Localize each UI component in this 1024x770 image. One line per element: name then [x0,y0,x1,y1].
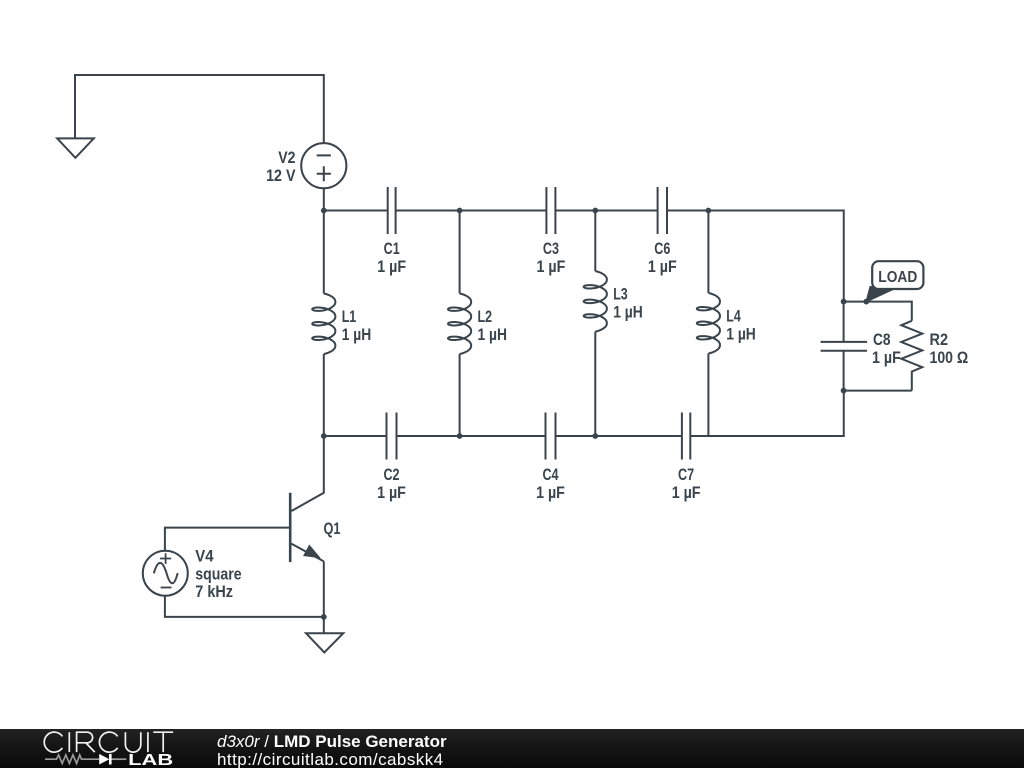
svg-text:C3: C3 [543,240,559,258]
wire top rail [324,211,844,302]
svg-text:1 µF: 1 µF [536,484,565,502]
inductor L2 [448,211,471,437]
inductor L4 [697,211,720,437]
wire load top [844,302,912,321]
ground GND2 [306,633,343,652]
node load left [841,299,847,305]
node load bottom [841,388,847,394]
transistor Q1 [290,493,324,562]
footer title [217,732,447,752]
capacitor C3 [546,187,555,234]
svg-text:C4: C4 [542,466,559,484]
svg-text:L3: L3 [613,286,628,304]
svg-text:1 µH: 1 µH [613,304,643,322]
node bottom B [457,433,463,439]
svg-text:C6: C6 [654,240,670,258]
svg-text:1 µF: 1 µF [377,258,406,276]
svg-text:100 Ω: 100 Ω [930,349,969,367]
node top B [457,208,463,214]
svg-text:7 kHz: 7 kHz [195,583,233,601]
svg-text:Q1: Q1 [324,520,341,538]
node load flag [863,299,869,305]
svg-text:1 µF: 1 µF [872,349,901,367]
svg-text:1 µH: 1 µH [478,326,508,344]
node bottom C [592,433,598,439]
inductor L1 [312,211,335,437]
capacitor C7 [682,413,690,460]
svg-text:1 µF: 1 µF [377,484,406,502]
node top D [706,208,712,214]
footer url [217,750,444,770]
node top A [321,208,327,214]
wire V2 to node [323,188,325,210]
svg-text:L1: L1 [342,308,357,326]
wire bottom rail [324,391,844,436]
svg-text:C1: C1 [384,240,400,258]
svg-text:LOAD: LOAD [878,269,917,286]
inductor L3 [584,211,607,437]
wire emitter [323,561,325,617]
flag LOAD [866,261,923,301]
svg-text:L2: L2 [478,308,493,326]
capacitor C4 [546,413,556,460]
wire load bottom [844,390,912,392]
footer bar [0,729,1024,768]
svg-text:C2: C2 [383,466,399,484]
svg-text:1 µH: 1 µH [726,326,756,344]
svg-text:V2: V2 [278,149,295,167]
capacitor C1 [388,187,396,234]
capacitor C2 [387,413,397,460]
capacitor C8 [821,302,868,391]
resistor R2 [901,321,922,391]
svg-text:C8: C8 [873,331,891,349]
node emitter [321,614,327,620]
wire collector [292,436,324,511]
svg-text:R2: R2 [930,331,949,349]
capacitor C6 [658,187,667,234]
node bottom A [321,433,327,439]
svg-text:1 µF: 1 µF [648,258,677,276]
svg-text:1 µH: 1 µH [342,326,372,344]
wire to ground [323,617,325,633]
wire V4 bottom [165,596,324,617]
voltage source V4 [143,551,188,596]
svg-text:12 V: 12 V [266,167,295,185]
svg-text:LAB: LAB [128,752,173,768]
ground GND1 [57,138,94,157]
logo resistor and diode [45,755,126,764]
svg-text:L4: L4 [726,308,741,326]
wire base [165,528,290,551]
voltage source V2 [301,143,346,188]
svg-text:V4: V4 [195,547,214,565]
wire top feed [75,75,324,143]
svg-text:square: square [195,565,241,583]
node top C [592,208,598,214]
svg-text:C7: C7 [678,466,694,484]
svg-text:1 µF: 1 µF [672,484,701,502]
logo text CIRCUIT [44,732,173,752]
svg-text:1 µF: 1 µF [537,258,566,276]
